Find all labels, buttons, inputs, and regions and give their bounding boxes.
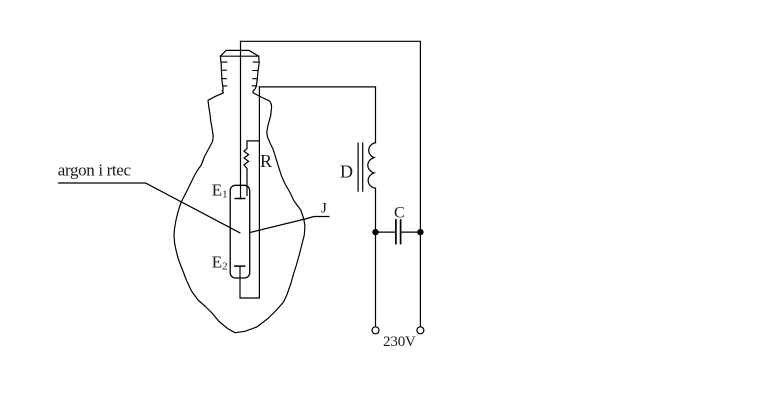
svg-text:D: D [340, 162, 353, 182]
svg-text:J: J [321, 201, 327, 217]
svg-text:C: C [394, 205, 405, 222]
svg-text:E2: E2 [212, 252, 228, 272]
svg-text:R: R [260, 151, 272, 171]
svg-text:E1: E1 [212, 181, 228, 201]
svg-text:230V: 230V [383, 334, 416, 350]
svg-text:argon i rtec: argon i rtec [58, 161, 132, 180]
